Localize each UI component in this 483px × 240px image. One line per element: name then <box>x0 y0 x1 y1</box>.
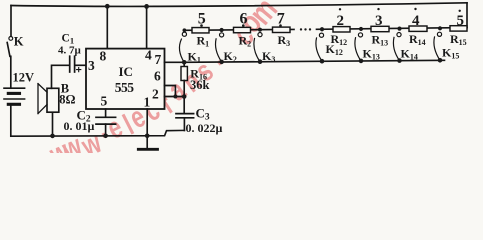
svg-text:8: 8 <box>100 49 107 64</box>
capacitor C1 4.7u electrolytic <box>70 56 81 72</box>
node bus K2 <box>219 60 224 65</box>
resistor R1 <box>192 28 209 33</box>
note dot below 5 <box>200 24 203 27</box>
svg-text:5: 5 <box>198 11 206 28</box>
svg-text:6: 6 <box>240 11 248 28</box>
node C2 ground <box>103 134 108 139</box>
switch K12 <box>316 33 324 61</box>
wire speaker to bottom rail <box>52 112 54 136</box>
svg-text:36k: 36k <box>190 78 210 92</box>
svg-text:7: 7 <box>155 52 162 67</box>
wire pin 6 jog <box>165 86 176 97</box>
note dot above 4 <box>414 8 416 10</box>
wire pin 4 to top rail <box>146 6 148 48</box>
node pin8 rail <box>105 4 110 9</box>
note dot below 7 <box>279 24 282 27</box>
svg-text:4. 7µ: 4. 7µ <box>58 45 82 57</box>
svg-text:3: 3 <box>88 58 95 73</box>
svg-text:2: 2 <box>337 13 345 29</box>
node pin6 pin2 <box>173 95 177 99</box>
wire pin 5 to C2 <box>105 109 107 117</box>
switch K1 <box>179 32 186 62</box>
node pin2 C3 <box>182 94 187 99</box>
note dot below 6 <box>242 24 245 27</box>
switch K3 <box>254 33 262 62</box>
battery 12V <box>4 88 25 104</box>
wire speaker to C1 <box>52 65 69 88</box>
ground <box>138 136 157 150</box>
node chain K2 <box>220 28 224 32</box>
node chain K12 <box>320 27 324 31</box>
wire left edge top <box>10 6 12 37</box>
svg-text:5: 5 <box>457 13 465 29</box>
node chain K13 <box>359 27 363 31</box>
wire resistor chain right segment <box>317 28 468 30</box>
switch K15 <box>434 32 442 60</box>
switch K13 <box>355 33 363 61</box>
resistor R14 <box>409 26 427 31</box>
svg-text:K: K <box>14 35 24 49</box>
resistor R2 <box>234 27 251 32</box>
wire pin 8 to top rail <box>106 6 108 48</box>
node chain K14 <box>397 27 401 31</box>
svg-text:555: 555 <box>115 80 135 95</box>
wire bottom rail <box>11 130 185 136</box>
resistor R12 <box>333 27 350 32</box>
note dot above 2 <box>339 8 341 10</box>
node chain K15 <box>438 26 442 30</box>
wire bus pin7 <box>184 60 444 62</box>
wire battery to bottom rail <box>10 104 12 136</box>
svg-text:4: 4 <box>145 48 152 63</box>
svg-text:8Ω: 8Ω <box>59 92 75 106</box>
svg-text:IC: IC <box>119 64 133 79</box>
wire right edge <box>466 3 468 28</box>
svg-text:1: 1 <box>144 95 151 110</box>
node bus K12 <box>320 59 325 64</box>
node bus K3 <box>258 59 263 64</box>
node chain K1 <box>183 28 187 32</box>
capacitor C2 0.01u <box>96 117 116 136</box>
watermark <box>44 0 285 172</box>
speaker B 8ohm <box>38 84 59 114</box>
svg-text:4: 4 <box>412 13 420 29</box>
op-amp U1 IC 555 box <box>86 49 165 109</box>
switch K <box>7 37 13 57</box>
node bus K15 <box>438 58 443 63</box>
node pin1 ground <box>145 134 150 139</box>
resistor R16 36k <box>181 62 187 113</box>
svg-text:7: 7 <box>277 11 285 28</box>
wire top rail <box>11 3 467 7</box>
node bus K14 <box>397 58 402 63</box>
switch K14 <box>393 33 401 61</box>
resistor R15 <box>450 26 467 31</box>
svg-text:12V: 12V <box>13 70 35 84</box>
note dot above 3 <box>377 8 379 10</box>
svg-text:2: 2 <box>152 87 159 102</box>
svg-text:0. 022µ: 0. 022µ <box>186 121 223 135</box>
resistor R3 <box>273 27 291 32</box>
wire chain ellipsis <box>300 28 302 30</box>
node pin4 rail <box>144 4 149 9</box>
svg-text:6: 6 <box>154 69 161 84</box>
wire pin 7 to node A <box>165 61 185 63</box>
wire pin 1 to bottom rail <box>146 109 148 136</box>
wire C1 to pin 3 <box>76 64 87 66</box>
node chain K3 <box>258 28 262 32</box>
node speaker ground <box>50 134 55 139</box>
switch K2 <box>216 33 224 62</box>
node bus K13 <box>359 59 364 64</box>
node A pin7 bus <box>182 60 187 65</box>
wire pin 2 <box>165 96 185 98</box>
svg-text:3: 3 <box>375 13 383 29</box>
wire resistor chain left segment <box>184 28 294 31</box>
svg-text:5: 5 <box>101 94 108 109</box>
note dot above 5 high <box>459 10 461 12</box>
capacitor C3 0.022u <box>176 114 194 131</box>
resistor R13 <box>371 26 389 31</box>
wire switch to battery <box>10 56 12 88</box>
svg-text:0. 01µ: 0. 01µ <box>64 119 95 133</box>
